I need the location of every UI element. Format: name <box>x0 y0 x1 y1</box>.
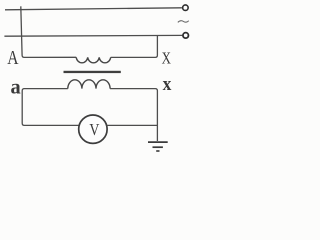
svg-text:V: V <box>89 121 99 139</box>
svg-text:X: X <box>162 50 171 68</box>
AC source tilde ~ <box>178 21 189 23</box>
voltmeter V circle <box>79 115 107 143</box>
svg-text:A: A <box>7 46 18 68</box>
terminal circle (top) <box>183 5 189 11</box>
wire: top supply line 2 <box>4 34 182 37</box>
transformer core bar <box>64 71 121 73</box>
ground symbol <box>148 142 168 151</box>
wire: secondary left lead down and across to voltmeter <box>22 89 79 126</box>
wire: top supply line 1 <box>5 8 182 10</box>
wire: voltmeter right to ground node <box>107 124 158 126</box>
primary winding P1 (3 loops facing down) <box>76 57 111 62</box>
svg-text:x: x <box>163 73 173 94</box>
wire: primary right lead up to line 2 (terminal X) <box>111 36 158 58</box>
wire: left drop from line1 to primary terminal A <box>21 6 76 57</box>
terminal circle (bottom) <box>183 33 189 39</box>
wire: secondary right lead down to ground <box>110 89 157 141</box>
secondary winding S1 (3 loops facing up) <box>68 80 110 89</box>
svg-text:a: a <box>11 74 22 99</box>
